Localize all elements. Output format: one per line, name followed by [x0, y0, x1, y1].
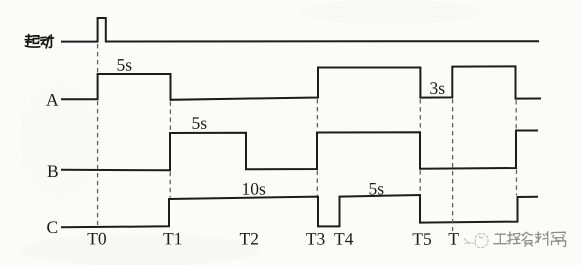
- guide T6 full: [452, 99, 454, 231]
- time axis label T5: [413, 233, 431, 245]
- guide T7 lower: [516, 170, 518, 196]
- label 5s (B pulse): [193, 117, 207, 129]
- label 5s (C second): [370, 183, 384, 195]
- guide T3 lower: [316, 171, 318, 196]
- guide T0 lower: [97, 101, 99, 225]
- dashed time guides: [98, 44, 517, 231]
- time axis label T1: [163, 233, 181, 245]
- char 工: [495, 233, 505, 235]
- faint paper mottle: [20, 0, 480, 265]
- waveform C: [61, 195, 538, 227]
- guide T7 upper: [515, 100, 517, 129]
- time axis label T6 (partly hidden): [449, 233, 459, 244]
- guide T5 lower: [419, 170, 421, 193]
- watermark icon scribble: [465, 234, 489, 248]
- guide T0 upper: [97, 44, 99, 73]
- time axis label T3: [306, 233, 324, 245]
- char 资: [522, 234, 524, 235]
- label 10s (C): [243, 183, 265, 195]
- waveform A: [61, 66, 541, 99]
- guide T3 upper: [316, 99, 318, 131]
- label C: [47, 221, 57, 233]
- watermark text 工控资料窝 (gray): [494, 232, 566, 247]
- char 料: [536, 233, 541, 235]
- char 控: [508, 234, 513, 236]
- char 窝: [552, 232, 565, 234]
- label 5s (A pulse): [118, 59, 132, 71]
- label A: [46, 94, 58, 106]
- label 3s (A gap): [430, 82, 444, 94]
- waveform B: [61, 131, 538, 171]
- guide T1 upper: [169, 102, 171, 132]
- label B: [48, 166, 58, 178]
- time axis label T2: [240, 233, 258, 245]
- guide T1 lower: [169, 172, 171, 198]
- label 起动 (start): [25, 35, 53, 48]
- time axis label T4: [334, 233, 353, 245]
- guide T5 upper: [419, 99, 421, 131]
- waveform: start-signal line with trigger pulse: [61, 18, 539, 42]
- time axis label T0: [88, 233, 106, 245]
